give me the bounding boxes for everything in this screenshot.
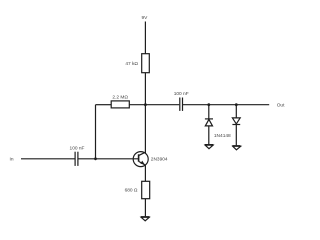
wire R1 bottom to transistor collector xyxy=(144,73,146,153)
diode D1 1N4148 (cathode up) xyxy=(205,119,213,126)
capacitor C2 100 nF plates xyxy=(179,98,181,111)
diode D2 1N4148 (cathode down) xyxy=(232,118,240,125)
wire In to C1 xyxy=(21,158,75,160)
ground below R3 xyxy=(141,217,150,221)
svg-text:In: In xyxy=(9,157,13,163)
svg-text:Out: Out xyxy=(277,102,285,108)
wire C1 to transistor base xyxy=(79,158,139,160)
junction diode D1 node xyxy=(207,103,210,106)
ground below D2 xyxy=(232,146,240,150)
resistor R1 47 kOhm body xyxy=(142,54,150,73)
wire node to D2 xyxy=(235,105,237,118)
wire 9V to R1 top xyxy=(144,22,146,54)
ground below D1 xyxy=(205,145,214,149)
svg-text:100 nF: 100 nF xyxy=(174,91,189,97)
transistor Q1 2N3904 xyxy=(133,152,148,167)
svg-text:47 kΩ: 47 kΩ xyxy=(125,61,138,67)
wire node to D1 xyxy=(208,105,210,119)
svg-text:9V: 9V xyxy=(141,15,148,21)
wire emitter to R3 xyxy=(144,165,146,181)
junction collector node xyxy=(144,103,147,106)
wire D2 to ground xyxy=(235,125,237,146)
wire main output node horizontal left segment xyxy=(129,104,179,106)
junction base node xyxy=(94,157,97,160)
resistor R2 2.2 MOhm body xyxy=(111,101,129,108)
svg-text:680 Ω: 680 Ω xyxy=(125,188,138,194)
svg-text:1N4148: 1N4148 xyxy=(214,133,231,139)
wire R2 left to feedback corner xyxy=(96,104,112,106)
svg-text:2.2 MΩ: 2.2 MΩ xyxy=(112,95,128,101)
wire R3 bottom to ground xyxy=(144,199,146,217)
svg-text:2N3904: 2N3904 xyxy=(151,156,168,162)
svg-text:100 nF: 100 nF xyxy=(70,145,85,151)
wire C2 to Out xyxy=(183,104,269,106)
wire feedback vertical down to base node xyxy=(95,105,97,159)
capacitor C1 100 nF plates xyxy=(74,152,76,166)
resistor R3 680 Ohm body xyxy=(142,181,150,198)
wire D1 to ground xyxy=(208,126,210,144)
junction diode D2 node xyxy=(235,103,238,106)
